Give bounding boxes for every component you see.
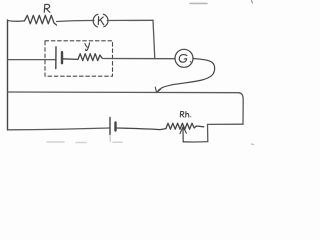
battery enclosure dashed box — [45, 41, 113, 76]
jockey arrowhead — [155, 87, 160, 92]
wire top middle segment — [57, 20, 95, 21]
resistor r — [78, 54, 102, 61]
galvanometer dot — [190, 61, 191, 62]
stray mark bottom tick — [109, 136, 111, 142]
rheostat Rh — [166, 123, 204, 129]
wire right vertical — [239, 93, 243, 125]
key K circle arcs — [93, 14, 98, 27]
label r — [85, 43, 90, 51]
stray mark bottom dash 3 — [113, 141, 122, 143]
rheostat wiper arrowhead — [180, 127, 186, 134]
wire cell to resistor r — [62, 58, 78, 61]
stray mark top right corner — [252, 1, 253, 4]
wire top left segment — [8, 20, 25, 23]
rheostat wiper arrow — [182, 128, 184, 142]
stray mark bottom dash 2 — [76, 142, 86, 144]
wire right branch vertical to second row — [153, 20, 155, 59]
wire notch vertical — [207, 124, 209, 141]
stray mark top dash — [190, 2, 207, 4]
battery short plate — [114, 123, 116, 131]
stray mark bottom dash 1 — [47, 141, 64, 143]
cell short plate — [61, 52, 63, 63]
wire third row (potentiometer wire) — [8, 91, 240, 94]
battery long plate — [109, 118, 111, 135]
wire second row left segment — [8, 59, 56, 61]
stray mark bottom right tiny — [252, 143, 254, 146]
wire top right segment — [107, 19, 153, 21]
wire notch top horizontal — [208, 123, 244, 125]
label Rh dot — [190, 116, 191, 117]
label K — [98, 17, 103, 25]
label R — [44, 4, 50, 12]
galvanometer G circle — [175, 49, 193, 67]
wire second row right segment — [103, 58, 176, 60]
label G — [179, 55, 187, 63]
label Rh — [180, 111, 189, 117]
resistor R — [25, 15, 57, 25]
wire notch bottom horizontal — [183, 141, 208, 143]
wire bottom left segment — [8, 128, 110, 130]
cell long plate — [55, 47, 57, 69]
wire left vertical — [7, 20, 9, 130]
wire curve from G to jockey — [157, 59, 215, 93]
wire battery to rheostat — [116, 128, 167, 130]
